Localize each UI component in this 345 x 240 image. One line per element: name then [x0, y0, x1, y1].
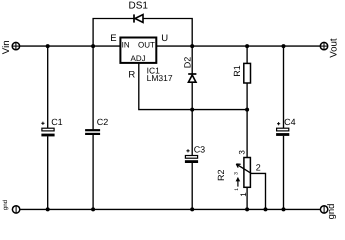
- wire: C1 branch lower: [47, 136, 49, 209]
- svg-text:R: R: [128, 70, 135, 81]
- diode D2: [188, 74, 196, 82]
- svg-text:R2: R2: [216, 169, 226, 181]
- svg-text:Vin: Vin: [1, 40, 12, 54]
- wire: C2 branch upper: [92, 46, 94, 129]
- capacitor C2: [85, 129, 100, 135]
- svg-text:C1: C1: [51, 117, 63, 127]
- connector Vin pad: [12, 42, 19, 49]
- svg-text:gnd: gnd: [2, 200, 9, 210]
- junction dots mid rail: [190, 108, 249, 112]
- wire: R1 top: [246, 46, 248, 63]
- connector gnd right pad: [320, 206, 327, 213]
- wire: bottom rail (gnd): [20, 208, 321, 210]
- svg-text:U: U: [161, 33, 168, 44]
- svg-text:1: 1: [234, 188, 240, 191]
- svg-text:ADJ: ADJ: [131, 54, 146, 63]
- connector Vout pad: [320, 42, 327, 49]
- svg-text:1: 1: [239, 192, 248, 197]
- potentiometer adjustment arrow: [236, 177, 241, 187]
- wire: C3 branch lower: [191, 163, 193, 209]
- svg-text:gnd: gnd: [326, 204, 337, 220]
- potentiometer R2 wiper diagonal: [237, 164, 252, 173]
- wire: ADJ pin down and mid rail (net R): [139, 63, 247, 110]
- diode DS1: [134, 14, 143, 22]
- wire: C4 branch upper: [283, 46, 285, 128]
- connector gnd left pad: [12, 206, 19, 213]
- potentiometer R2 wiper arrowhead: [236, 164, 240, 168]
- wire: R1 bottom to mid rail: [246, 83, 248, 110]
- plus sign C1: [41, 122, 44, 125]
- svg-text:C4: C4: [284, 117, 296, 127]
- svg-text:2: 2: [256, 163, 261, 173]
- capacitor C3 (polarized): [185, 156, 198, 164]
- wire: C2 branch lower: [92, 135, 94, 210]
- junction dots bottom rail: [46, 207, 286, 211]
- wire: C3 branch upper: [191, 110, 193, 156]
- svg-text:E: E: [110, 33, 116, 44]
- svg-text:C2: C2: [97, 117, 109, 127]
- svg-text:3: 3: [234, 172, 240, 175]
- svg-text:R1: R1: [232, 65, 242, 77]
- plus sign C4: [277, 122, 280, 125]
- wire: R2 pin 1 to bottom rail: [246, 187, 248, 209]
- svg-text:C3: C3: [194, 145, 206, 155]
- wire: R2 wiper pin 2: [251, 173, 266, 209]
- junction dots main rail: [46, 44, 286, 48]
- plus sign C3: [186, 149, 189, 152]
- wire: mid rail to R2 pin 3: [246, 110, 248, 158]
- wire: OUT pin to Vout (net U): [156, 45, 320, 47]
- svg-text:OUT: OUT: [138, 41, 155, 50]
- wire: C1 branch upper: [47, 46, 49, 128]
- potentiometer R2 body: [244, 158, 251, 188]
- svg-text:Vout: Vout: [329, 38, 340, 58]
- resistor R1: [244, 63, 251, 83]
- capacitor C4 (polarized): [276, 128, 289, 136]
- wire: D2 to mid rail (net R): [191, 82, 193, 109]
- svg-text:3: 3: [238, 150, 247, 155]
- wire: D2 branch (net U to D2): [191, 46, 193, 74]
- svg-text:LM317: LM317: [147, 73, 173, 83]
- wire: C4 branch lower: [283, 136, 285, 210]
- svg-text:IN: IN: [122, 41, 130, 50]
- wire: Vin to IN pin (net E): [19, 45, 120, 47]
- svg-text:DS1: DS1: [128, 1, 148, 12]
- capacitor C1 (polarized): [41, 128, 54, 136]
- svg-text:D2: D2: [183, 57, 193, 69]
- op-amp style block IC1 LM317: [120, 38, 156, 63]
- wire: top rail through DS1: [93, 19, 192, 47]
